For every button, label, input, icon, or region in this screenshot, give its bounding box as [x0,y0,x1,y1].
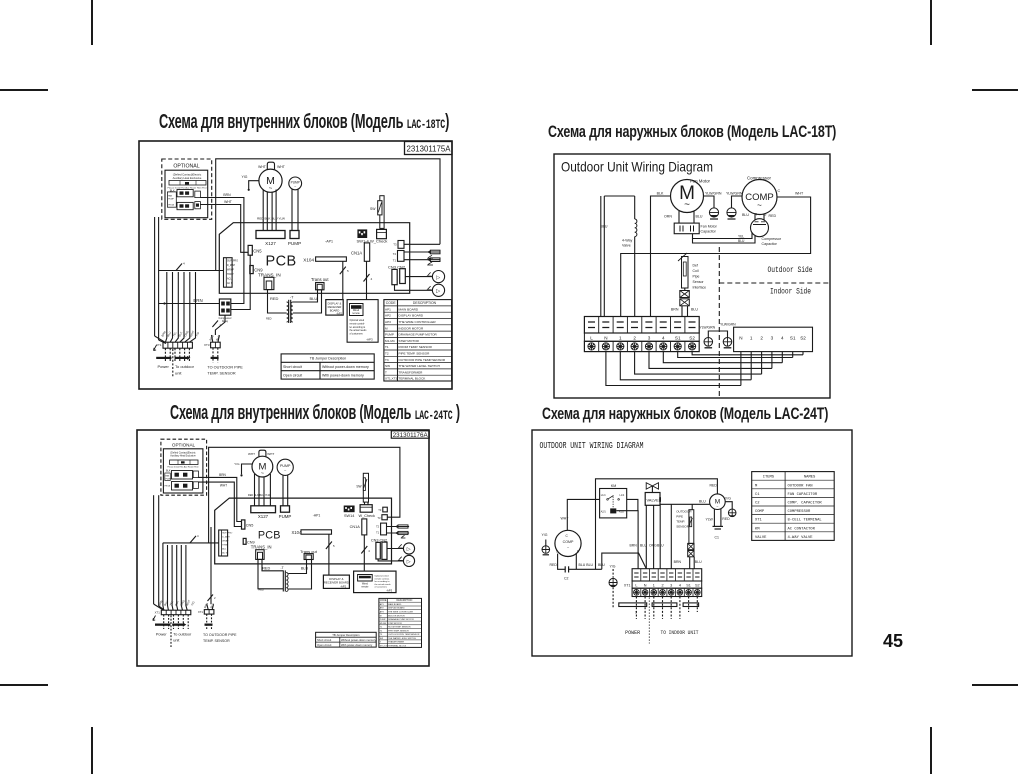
terminal XT3 [198,610,214,615]
svg-text:M: M [755,484,758,488]
DIAGRAM BL : indoor LAC-24TC [135,428,431,668]
frame TL [139,141,452,389]
rotated labels XT3 [208,334,221,341]
svg-text:AP2: AP2 [380,607,385,610]
svg-text:AP3: AP3 [380,611,385,614]
svg-text:Open circuit: Open circuit [283,373,302,377]
svg-text:SW14: SW14 [344,514,354,518]
svg-text:TRANSFORMER: TRANSFORMER [388,641,405,644]
svg-text:SENSOR: SENSOR [676,525,690,529]
svg-text:Auxiliary Heat Exclusive: Auxiliary Heat Exclusive [170,455,196,458]
svg-text:DESCRIPTION: DESCRIPTION [397,600,413,602]
svg-text:FAN CAPACITOR: FAN CAPACITOR [788,493,818,497]
wire bundle to XT1 [155,272,196,344]
svg-text:XT1,XT3: XT1,XT3 [385,377,397,381]
svg-text:-AP1: -AP1 [313,514,321,518]
power feed arrow [153,616,156,621]
svg-text:AP1: AP1 [385,307,391,311]
svg-text:RED BLK BLU YLW: RED BLK BLU YLW [248,494,271,497]
svg-text:~: ~ [284,468,287,473]
svg-text:X104: X104 [303,257,314,262]
svg-text:RED: RED [266,317,272,321]
code box 231301175A [405,142,453,155]
ground screw 2 [726,192,743,220]
sensor connector pair [674,543,702,568]
svg-text:COMP: COMP [755,510,765,514]
comp S lead RED to capacitor C2 [550,554,566,570]
svg-text:With power-down memory: With power-down memory [322,373,364,377]
svg-text:THE WIRE CONTROLLER: THE WIRE CONTROLLER [388,612,413,614]
dashed leads below terminal [636,597,697,620]
dip switch SW1-4 [357,229,370,243]
svg-text:M1-M4: M1-M4 [385,339,395,343]
transformer T [266,290,322,323]
svg-text:T3: T3 [378,508,382,512]
pipe temp sensor wires [387,525,410,538]
svg-text:2: 2 [661,584,663,588]
svg-text:4: 4 [679,584,681,588]
svg-text:M1-M4: M1-M4 [380,623,387,625]
svg-text:Power: Power [156,632,167,636]
left board connector [224,258,239,288]
svg-text:WHT: WHT [248,452,255,456]
power cable bar [619,603,647,607]
svg-text:Compressor: Compressor [762,237,782,241]
svg-text:OUTDOOR PIPE TEMP.SENSOR: OUTDOOR PIPE TEMP.SENSOR [388,634,420,636]
svg-text:C: C [778,189,781,193]
svg-text:C2: C2 [755,502,760,506]
svg-text:SW1-4: SW1-4 [357,239,370,244]
svg-text:TO INDOOR UNIT: TO INDOOR UNIT [661,629,700,636]
connector TRANS_IN [251,544,272,559]
wire to XT3 [208,527,217,604]
svg-text:C1: C1 [715,536,720,540]
svg-text:4: 4 [183,262,185,266]
svg-text:RED: RED [270,296,279,301]
svg-text:231301176A: 231301176A [393,432,428,439]
svg-text:~: ~ [684,200,690,211]
label To outdoor unit [173,632,192,642]
dashed leads below XT1 [164,615,189,648]
left board connector [219,530,233,556]
connectors CN3 CN2 [371,539,387,560]
svg-text:▷: ▷ [407,547,411,553]
svg-text:Capacitor: Capacitor [762,242,778,246]
fan leads YLW RED to capacitor C1 [706,509,731,527]
svg-text:S2: S2 [800,336,806,341]
wire CN1A to AP3 with jumper [361,535,370,571]
svg-text:XT1: XT1 [156,343,162,347]
svg-text:4: 4 [781,336,784,341]
svg-text:COMPRESSOR: COMPRESSOR [788,510,812,514]
capacitor C2 [564,566,569,580]
wire X104 to AP2 with jumper [340,261,349,299]
terminal labels row [584,333,699,341]
svg-text:ORG: ORG [649,544,657,548]
svg-text:Power: Power [158,364,170,369]
trans out connector [300,549,318,560]
svg-text:4: 4 [197,534,199,538]
wire Y/G to motor [242,175,259,191]
svg-text:~: ~ [261,471,264,477]
svg-text:Optional wired: Optional wired [375,575,390,578]
svg-text:BLU: BLU [738,239,745,243]
svg-text:RED: RED [722,517,730,521]
svg-text:unit: unit [175,371,182,376]
label to outdoor pipe temp sensor [203,633,237,643]
svg-text:PUMP: PUMP [291,181,300,185]
title indoor LAC-24TC [170,402,460,425]
wire to XT3 [212,315,225,335]
svg-text:remote control-: remote control- [375,577,390,580]
svg-text:S1: S1 [675,336,681,341]
svg-text:2: 2 [760,336,763,341]
svg-text:~: ~ [294,185,296,189]
svg-text:C2: C2 [564,577,569,581]
svg-text:S2: S2 [695,584,700,588]
4-way valve coil [622,196,637,317]
left rail wires [601,196,635,317]
svg-text:4: 4 [371,277,373,281]
svg-text:BLU: BLU [640,544,647,548]
items names table [752,472,835,541]
svg-text:3: 3 [670,584,672,588]
crop mark top-left vertical [91,0,93,45]
crop mark bottom-left vertical [91,727,93,774]
wire X104 to AP2 with jumper [326,534,335,575]
svg-text:the actual needs: the actual needs [375,583,392,586]
dashed leads below XT3 [213,348,218,363]
interconnect wires [606,352,803,386]
room temp sensor T1 [404,250,440,258]
svg-text:1: 1 [750,336,753,341]
connector TRANS_IN [258,272,281,289]
power feed arrow [154,345,157,351]
svg-text:Y/G: Y/G [725,497,731,501]
svg-text:~: ~ [269,186,273,192]
svg-text:BRN: BRN [193,298,202,303]
svg-text:T1: T1 [385,345,389,349]
svg-text:WHT: WHT [220,483,227,487]
svg-text:T: T [380,642,382,644]
connector CN9 [250,266,263,274]
dashed leads below XT1 [165,348,189,377]
wired controller AP3 box [347,300,378,343]
svg-text:WHT: WHT [258,165,266,169]
svg-text:ITEMS: ITEMS [763,476,775,480]
XT3 funnel [212,335,220,342]
svg-text:DISPLAY BOARD: DISPLAY BOARD [399,314,424,318]
wire relay to CN5 pin [231,255,250,309]
connector T3a [378,507,387,512]
svg-text:W_Check: W_Check [370,239,387,244]
svg-text:Coil: Coil [693,269,699,273]
svg-text:TRANS_IN: TRANS_IN [251,544,272,549]
svg-text:PCB: PCB [258,530,281,542]
svg-text:Optional wired: Optional wired [350,319,365,322]
svg-text:N: N [644,584,647,588]
BRN bus junction [159,298,220,305]
svg-text:4: 4 [662,336,665,341]
svg-text:M: M [385,326,388,330]
svg-text:AC CONTACTOR: AC CONTACTOR [788,527,816,531]
wire KM right contact [627,499,638,510]
svg-text:WHT: WHT [224,200,232,204]
svg-text:THE WATER LEVEL SWITCH: THE WATER LEVEL SWITCH [399,364,440,368]
ground screw 1 [709,208,718,219]
code description table [384,300,452,381]
svg-text:T1: T1 [376,531,380,535]
svg-text:N: N [739,336,742,341]
4-way valve symbol [646,483,658,493]
transformer T [258,559,309,591]
title outdoor LAC-24T [542,404,828,424]
svg-text:Fan Motor: Fan Motor [701,225,718,229]
svg-text:ACL: ACL [222,548,227,551]
svg-text:BLK: BLK [177,331,183,338]
svg-text:1: 1 [635,611,637,615]
svg-text:231301175A: 231301175A [407,144,451,154]
svg-text:TO OUTDOOR PIPE: TO OUTDOOR PIPE [207,366,243,370]
PCB board outline [215,498,392,564]
TB jumper table [316,632,377,647]
svg-text:~: ~ [567,545,570,550]
svg-text:Trans out: Trans out [311,277,329,282]
fan motor capacitor [674,223,717,234]
valve wires to terminals [646,505,660,568]
svg-text:OUTDOOR UNIT WIRING DIAGRAM: OUTDOOR UNIT WIRING DIAGRAM [540,440,644,451]
svg-text:AC N: AC N [227,282,233,285]
compressor COMP [555,530,581,556]
svg-text:~: ~ [757,201,762,210]
wire into board connector with jumper [163,534,219,543]
motor wires to X127 [248,474,271,506]
crop mark right horizontal [972,89,1018,91]
wire WHT comp to terminal 1 [621,189,811,317]
frame BL [137,430,429,666]
svg-text:INDOOR MOTOR: INDOOR MOTOR [399,326,424,330]
svg-text:▷: ▷ [407,559,411,565]
svg-text:ACL: ACL [227,278,232,281]
svg-text:T: T [385,370,387,374]
wired controller AP3 box [354,571,396,593]
top loop wire [209,447,400,543]
svg-text:3: 3 [771,336,774,341]
svg-text:CN1A: CN1A [351,251,362,256]
svg-text:L: L [635,584,637,588]
optional dashed box [162,159,212,219]
svg-text:PIPE TEMP. SENSOR: PIPE TEMP. SENSOR [388,630,409,632]
compressor relay [218,299,231,323]
svg-text:COMP. CAPACITOR: COMP. CAPACITOR [788,502,823,506]
svg-text:Sensor: Sensor [693,280,705,284]
svg-text:Capacitor: Capacitor [701,230,717,234]
connector T2 [393,251,404,262]
svg-text:XT1: XT1 [624,584,631,588]
code description table [379,598,422,647]
svg-text:AC N: AC N [222,552,227,555]
svg-text:remote: remote [352,312,360,315]
svg-text:BLK: BLK [166,470,171,473]
svg-text:5: 5 [333,544,335,548]
drainage pump [277,459,293,475]
power cable bar [155,624,170,626]
svg-text:-AP3: -AP3 [366,338,373,342]
svg-text:OPTIONAL: OPTIONAL [172,443,196,448]
crop mark bottom-right vertical [930,727,932,774]
DIAGRAM TL : indoor LAC-18TC [136,138,454,391]
AC contactor KM [600,484,627,518]
svg-text:Open circuit: Open circuit [317,643,332,647]
XT3 funnel [207,604,214,609]
svg-text:STEP MOTOR: STEP MOTOR [388,623,402,625]
svg-text:CODE: CODE [380,600,387,602]
svg-text:RECEIVER: RECEIVER [328,305,342,309]
svg-text:XT1: XT1 [198,610,204,614]
display receiver board AP2 [326,300,343,316]
fan motor M [671,179,711,213]
pipe temp sensor T2 [404,258,440,265]
svg-text:PROA: PROA [165,485,171,488]
wire to terminal N [602,553,647,569]
svg-text:Y/G: Y/G [610,565,616,569]
svg-text:TRMP: TRMP [222,545,229,547]
svg-text:WHT: WHT [561,517,570,521]
frame TR [554,154,830,398]
svg-text:OUTDOOR PIPE TEMP.SENSOR: OUTDOOR PIPE TEMP.SENSOR [399,358,446,362]
compressor COMP [742,176,777,215]
indoor cable bar [652,603,677,607]
svg-text:PUMP: PUMP [279,514,292,519]
DIAGRAM TR : outdoor LAC-18T [552,152,832,400]
svg-text:S: S [556,550,558,554]
svg-text:RED: RED [262,567,270,571]
outdoor terminal block XT [584,317,699,334]
wire Y/G to motor [234,462,252,477]
indoor motor M [248,450,274,477]
wire YLW/GRN ground fan [704,192,722,208]
svg-text:ORN: ORN [664,215,672,219]
svg-text:XT1: XT1 [155,611,161,615]
svg-text:Interface: Interface [693,286,707,290]
svg-text:YLW/GRN: YLW/GRN [726,192,743,196]
svg-text:Please Install The Aux Heater: Please Install The Aux Heater Here [167,466,199,469]
svg-text:BLU: BLU [301,567,309,571]
svg-text:XT3: XT3 [204,343,210,347]
def coil pipe sensor probe [678,253,706,290]
svg-text:BLU: BLU [215,335,221,342]
svg-text:To outdoor: To outdoor [173,632,192,636]
svg-text:WHT: WHT [277,165,285,169]
svg-text:PUMP: PUMP [385,333,394,337]
top loop wire [216,159,440,271]
outdoor fan motor M [710,494,732,510]
ground screw comp Y/G [542,533,550,555]
svg-text:T2: T2 [380,630,383,632]
svg-text:MAIN BOARD: MAIN BOARD [399,307,419,311]
crop mark left horizontal [0,89,48,91]
svg-text:L: L [590,336,593,341]
svg-text:~: ~ [716,505,718,509]
svg-text:A2/1: A2/1 [601,511,607,514]
wire into board connector with jumper [159,262,224,271]
svg-text:TERMINAL BLOCK: TERMINAL BLOCK [399,377,427,381]
svg-text:OPTIONAL: OPTIONAL [173,164,199,170]
trans out wires [288,560,311,590]
connector X104 [303,257,346,262]
frame BR [532,430,852,656]
connector CN5 [248,245,262,255]
svg-text:RED: RED [259,589,264,592]
svg-text:X104: X104 [292,530,302,535]
buzzer 2 [395,284,445,296]
wire colour labels above terminal [630,544,665,548]
svg-text:KM: KM [755,527,760,531]
svg-text:With power-down memory: With power-down memory [341,643,373,647]
svg-text:D_MAH: D_MAH [227,264,235,267]
svg-text:DISPLAY BOARD: DISPLAY BOARD [388,607,405,610]
svg-text:WRAP: WRAP [222,540,229,543]
wire colour labels rotated [157,599,195,607]
svg-text:TB Jumper Description: TB Jumper Description [310,357,347,361]
svg-text:Y/G: Y/G [542,533,548,537]
display receiver board AP2 [323,575,349,588]
compressor capacitor [742,213,782,247]
dash-dot divider [648,598,650,644]
svg-text:PUMP: PUMP [166,478,172,480]
svg-text:YIG: YIG [242,175,248,179]
svg-text:BLU: BLU [696,215,703,219]
dip switch SW14 [344,506,355,519]
ground screw YLW/GRN 1 [700,326,728,348]
svg-text:BRN: BRN [208,334,214,341]
svg-text:ROOM TEMP. SENSOR: ROOM TEMP. SENSOR [399,345,433,349]
svg-text:TEMP. SENSOR: TEMP. SENSOR [207,372,235,376]
svg-text:DRAINAGE PUMP MOTOR: DRAINAGE PUMP MOTOR [399,333,438,337]
connector PUMP [279,506,292,519]
drainage pump [289,177,302,190]
connector CN5 [242,520,254,529]
wire WHT optional to CN5 [198,482,241,526]
terminal block XT1 [155,610,191,615]
svg-text:NAMES: NAMES [804,476,816,480]
svg-text:unit: unit [173,638,180,642]
svg-text:BLU: BLU [601,225,608,229]
svg-text:TRANSFORMER: TRANSFORMER [399,370,424,374]
svg-text:TERMINAL BLOCK: TERMINAL BLOCK [388,645,407,648]
svg-text:5: 5 [347,269,349,273]
svg-text:T2: T2 [376,525,380,529]
svg-text:of customers: of customers [350,333,364,336]
svg-text:AP1: AP1 [380,603,385,606]
svg-text:SUP_PRO: SUP_PRO [222,533,232,535]
svg-text:-T: -T [290,296,294,300]
svg-text:BLU: BLU [699,500,706,504]
svg-text:DESCRIPTION: DESCRIPTION [413,301,437,305]
dashed leads below XT3 [207,614,212,629]
water level switch SW [356,473,368,504]
svg-text:XT1: XT1 [755,519,763,523]
svg-text:Y/G: Y/G [234,462,240,466]
svg-text:2: 2 [214,596,216,600]
svg-text:VALVE: VALVE [646,498,659,503]
svg-text:3: 3 [648,336,651,341]
top bus wire [596,479,718,570]
wire valve to fan BLU with branch to terminal 3 [660,500,710,569]
svg-text:Y/G: Y/G [194,331,200,337]
svg-text:Def: Def [693,264,698,268]
outdoor cable bar [172,623,186,627]
